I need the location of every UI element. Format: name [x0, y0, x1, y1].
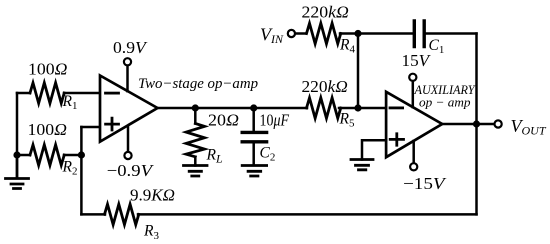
wire R4 to C1	[340, 32, 414, 35]
svg-text:−0.9V: −0.9V	[107, 161, 155, 180]
wire bottom feedback rail	[81, 213, 476, 216]
node junction output	[473, 120, 480, 127]
capacitor C2	[242, 132, 266, 141]
ground at U2 plus input	[351, 160, 373, 170]
resistor R4	[307, 23, 341, 43]
svg-text:20Ω: 20Ω	[208, 111, 239, 130]
ground under RL	[184, 166, 208, 177]
node junction R5-U2	[354, 104, 361, 111]
resistor R3	[105, 204, 139, 224]
capacitor C1	[414, 21, 424, 47]
node junction RL	[192, 104, 199, 111]
svg-text:9.9KΩ: 9.9KΩ	[130, 186, 175, 205]
wire plus input horizontal	[81, 126, 100, 129]
wire U2 output	[442, 123, 494, 126]
svg-text:Two−stage op−amp: Two−stage op−amp	[138, 76, 258, 92]
wire C2 stubs	[252, 108, 255, 165]
terminal 15V	[409, 74, 416, 81]
wire U1 output rail	[158, 107, 387, 110]
node junction R4-C1	[354, 30, 361, 37]
node junction R2-R3	[78, 151, 85, 158]
wire U1 negative supply	[127, 126, 130, 152]
op-amp U1 triangle	[100, 76, 158, 142]
wire VIN to R4	[295, 32, 306, 35]
ground under C2	[242, 166, 266, 177]
wire RL stub	[194, 108, 197, 166]
svg-text:−15V: −15V	[403, 174, 448, 193]
svg-text:15V: 15V	[402, 51, 432, 70]
svg-text:100Ω: 100Ω	[28, 59, 68, 78]
svg-text:220kΩ: 220kΩ	[302, 3, 349, 22]
terminal -15V	[410, 163, 417, 170]
svg-text:0.9V: 0.9V	[113, 38, 149, 57]
resistor RL	[186, 124, 204, 157]
resistor R1	[30, 83, 64, 103]
node junction left ground	[13, 151, 20, 158]
op-amp U2 triangle	[386, 92, 442, 157]
wire noninverting input riser	[80, 127, 83, 214]
wire R4-R5 vertical link	[357, 34, 360, 109]
resistor R5	[307, 98, 341, 118]
wire U1 positive supply	[126, 66, 129, 92]
op-amp U1 plus sign	[106, 118, 119, 130]
svg-text:op − amp: op − amp	[419, 95, 471, 110]
node junction C2	[250, 104, 257, 111]
wire left vertical input bus	[16, 93, 19, 155]
terminal VIN	[288, 30, 295, 37]
wire R2 leads	[17, 154, 81, 157]
svg-text:100Ω: 100Ω	[28, 120, 68, 139]
wire C1 to right bus	[424, 32, 476, 35]
op-amp U2 minus sign	[390, 107, 403, 110]
resistor R2	[30, 145, 64, 165]
wire U2 plus input to ground	[362, 140, 386, 159]
svg-text:10μF: 10μF	[260, 111, 290, 130]
svg-text:220kΩ: 220kΩ	[302, 77, 348, 96]
wire R1 leads	[17, 92, 100, 95]
ground left	[6, 155, 29, 189]
terminal 0.9V	[124, 58, 131, 65]
terminal VOUT	[495, 120, 502, 127]
wire U2 positive supply	[412, 81, 415, 107]
op-amp U1 minus sign	[106, 92, 119, 95]
wire U2 negative supply	[412, 141, 415, 163]
wire right vertical bus	[475, 34, 478, 215]
op-amp U2 plus sign	[390, 134, 403, 145]
terminal -0.9V	[124, 152, 131, 159]
